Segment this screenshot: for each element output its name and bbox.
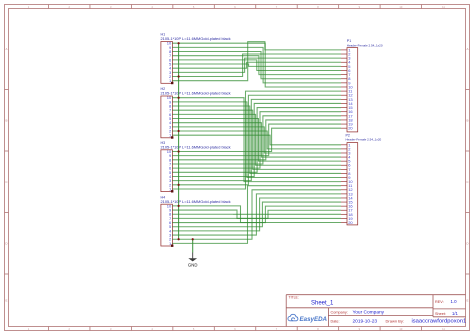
svg-text:GND: GND <box>188 263 198 268</box>
svg-text:E: E <box>5 298 7 302</box>
wire H4.1-P2.11 <box>172 186 341 244</box>
svg-text:1.0: 1.0 <box>451 299 458 304</box>
wire H1.1-P1.1 <box>172 42 341 81</box>
svg-text:B: B <box>466 118 468 122</box>
wire H2.9-P2.9 <box>172 102 341 178</box>
wire H3.10-P1.20 <box>172 128 341 151</box>
wire H2.3-P2.3 <box>172 127 341 153</box>
wire H2.10-P2.10 <box>172 98 341 182</box>
wire H4.2-P2.12 <box>172 190 341 239</box>
wire H2.8-P2.8 <box>172 106 341 173</box>
wire H1.5-P1.5 <box>172 64 341 66</box>
svg-text:D: D <box>5 241 8 245</box>
wire H4.10-P2.20 <box>172 206 341 223</box>
svg-text:REV:: REV: <box>435 300 444 304</box>
svg-text:isaaccrawfordpoxon1: isaaccrawfordpoxon1 <box>412 319 467 325</box>
svg-text:20: 20 <box>348 220 353 225</box>
wire H3.5-P1.15 <box>172 108 341 173</box>
wire H4.9-P2.19 <box>172 210 341 218</box>
wire H1.3-P1.3 <box>172 58 341 72</box>
GND stem wire <box>192 239 194 252</box>
svg-text:B: B <box>5 118 7 122</box>
wire H3.1-P1.11 <box>172 91 341 189</box>
svg-text:10: 10 <box>167 149 172 154</box>
wire H2.6-P2.6 <box>172 114 341 165</box>
svg-text:A: A <box>5 47 7 51</box>
wire H1.8-P1.8 <box>172 52 341 79</box>
wire H3.3-P1.13 <box>172 99 341 180</box>
svg-text:D: D <box>466 241 469 245</box>
svg-text:TITLE:: TITLE: <box>289 296 299 300</box>
wire H4.4-P2.14 <box>172 198 341 231</box>
wire H1.2-P1.2 <box>172 54 341 76</box>
wire H3.2-P1.12 <box>172 95 341 185</box>
wire H2.4-P2.4 <box>172 123 341 157</box>
wire H3.4-P1.14 <box>172 103 341 176</box>
wire H2.2-P2.2 <box>172 131 341 149</box>
svg-text:C: C <box>466 180 469 184</box>
wire H2.1-P2.1 <box>172 135 341 145</box>
wire H3.6-P1.16 <box>172 112 341 168</box>
svg-text:1/1: 1/1 <box>452 311 458 316</box>
wire H3.9-P1.19 <box>172 124 341 156</box>
svg-text:Your Company: Your Company <box>353 310 385 316</box>
svg-text:Drawn By:: Drawn By: <box>386 319 404 324</box>
svg-text:A: A <box>466 47 468 51</box>
GND bus wire <box>178 43 180 239</box>
wire H4.7-P2.17 <box>172 210 341 218</box>
junction dots <box>178 42 180 44</box>
svg-text:10: 10 <box>167 95 172 100</box>
svg-text:Sheet:: Sheet: <box>435 312 446 316</box>
svg-text:10: 10 <box>167 203 172 208</box>
title block <box>286 294 465 296</box>
wire H3.7-P1.17 <box>172 116 341 164</box>
svg-text:2019-10-23: 2019-10-23 <box>353 319 378 325</box>
svg-text:C: C <box>5 180 8 184</box>
wire H1.6-P1.6 <box>172 60 341 71</box>
svg-text:EasyEDA: EasyEDA <box>300 316 328 323</box>
wire H1.7-P1.7 <box>172 56 341 75</box>
svg-text:Header-Female 2.54_1x20: Header-Female 2.54_1x20 <box>346 138 382 142</box>
svg-text:20: 20 <box>348 126 353 131</box>
svg-text:Header-Female 2.54_1x20: Header-Female 2.54_1x20 <box>347 43 383 47</box>
wire H1.9-P1.9 <box>172 47 341 82</box>
wire H1.10-P1.10 <box>172 43 341 87</box>
svg-text:10: 10 <box>167 41 172 46</box>
wire H4.8-P2.18 <box>172 213 341 215</box>
wire H2.5-P2.5 <box>172 119 341 162</box>
EasyEDA logo <box>288 314 298 320</box>
svg-text:Sheet_1: Sheet_1 <box>311 300 334 306</box>
ruler ticks and labels <box>48 5 50 9</box>
svg-text:Date:: Date: <box>331 320 340 324</box>
wire H2.7-P2.7 <box>172 110 341 169</box>
wire H4.5-P2.15 <box>172 202 341 227</box>
wire H4.6-P2.16 <box>172 206 341 222</box>
wire H1.4-P1.4 <box>172 62 341 68</box>
svg-text:E: E <box>466 298 468 302</box>
svg-text:Company:: Company: <box>331 310 348 314</box>
wire H3.8-P1.18 <box>172 120 341 160</box>
ground symbol <box>192 253 194 259</box>
wire H4.3-P2.13 <box>172 194 341 235</box>
